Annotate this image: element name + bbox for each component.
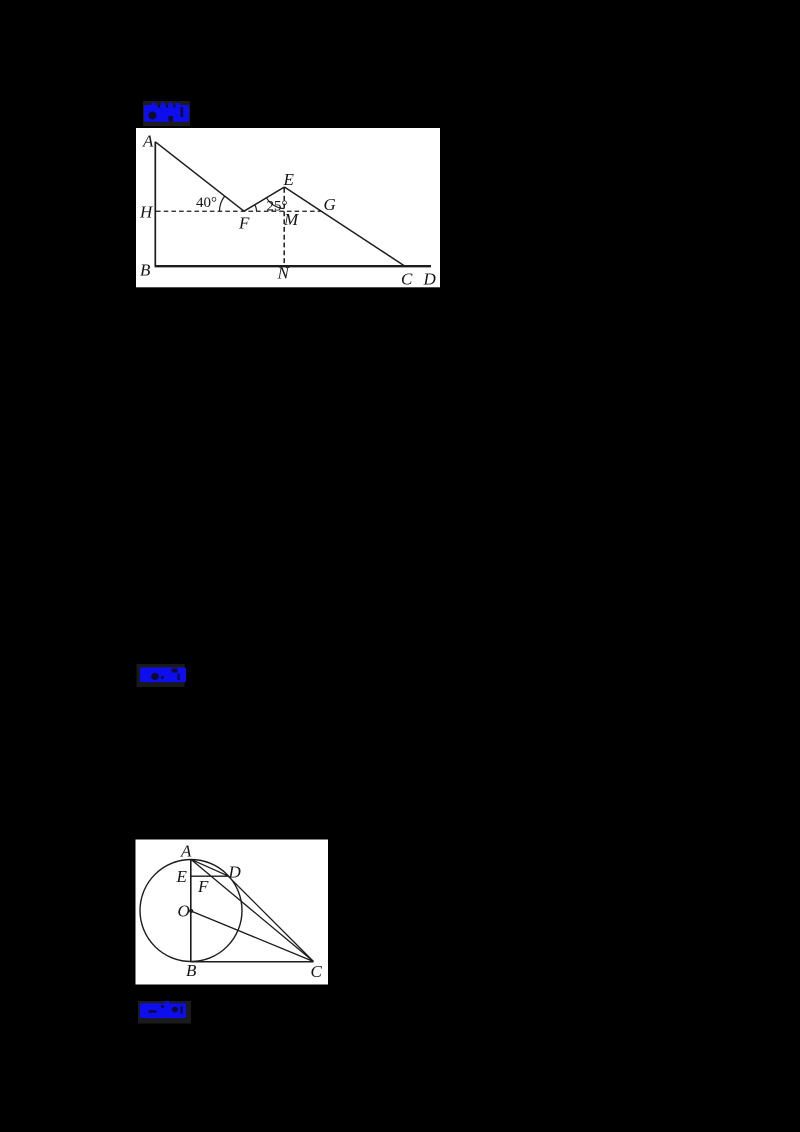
svg-text:B: B	[140, 261, 151, 280]
svg-text:B: B	[186, 961, 197, 980]
svg-text:F: F	[238, 214, 250, 233]
angle arc at F right	[255, 205, 257, 212]
svg-text:D: D	[423, 270, 437, 289]
wire AF slope	[155, 142, 244, 211]
label tag3 halo	[138, 1001, 191, 1024]
angle arc 25 at E	[266, 198, 284, 209]
label tag1 glyph dark spots	[149, 105, 184, 122]
svg-text:E: E	[176, 867, 188, 886]
svg-text:A: A	[142, 132, 154, 151]
label tag1 blue text block	[144, 103, 189, 122]
circle O	[140, 860, 242, 962]
label tag2 blue text block	[140, 668, 186, 683]
svg-text:G: G	[324, 195, 336, 214]
svg-text:A: A	[180, 842, 192, 861]
wire AD chord	[191, 859, 228, 876]
wire FE slope	[244, 187, 284, 211]
wire BD baseline	[155, 265, 431, 267]
svg-text:N: N	[277, 264, 291, 283]
panel 2 (figure: circle O with A B C D E F)	[136, 840, 329, 985]
svg-text:O: O	[178, 902, 190, 921]
svg-text:F: F	[197, 877, 209, 896]
svg-text:C: C	[311, 962, 323, 981]
wire EN dashed vertical	[283, 188, 285, 266]
center dot O	[189, 909, 193, 913]
label tag1 halo	[143, 101, 190, 126]
label tag3 glyph dark spots	[149, 1005, 183, 1014]
wire ED	[191, 875, 228, 877]
wire BC base	[191, 961, 314, 963]
wire AB diameter	[190, 859, 192, 961]
label tag2 halo	[137, 664, 185, 687]
label tag3 blue text block	[140, 1001, 186, 1018]
svg-text:25°: 25°	[267, 199, 288, 215]
wire HG dashed horizontal	[156, 210, 321, 212]
wire OC	[191, 911, 314, 962]
svg-text:D: D	[228, 863, 242, 882]
svg-text:40°: 40°	[196, 195, 217, 211]
wire AC	[191, 859, 314, 961]
svg-text:C: C	[401, 270, 413, 289]
wire AB vertical	[154, 142, 156, 267]
wire EC slope	[284, 187, 405, 266]
angle arc 40 at F	[219, 196, 224, 211]
svg-text:E: E	[283, 170, 295, 189]
wire DC	[228, 876, 314, 962]
svg-text:H: H	[139, 203, 154, 222]
label tag2 glyph dark spots	[151, 669, 180, 681]
panel 1 (figure: slope with points A B C D E F G H M N)	[136, 128, 440, 287]
